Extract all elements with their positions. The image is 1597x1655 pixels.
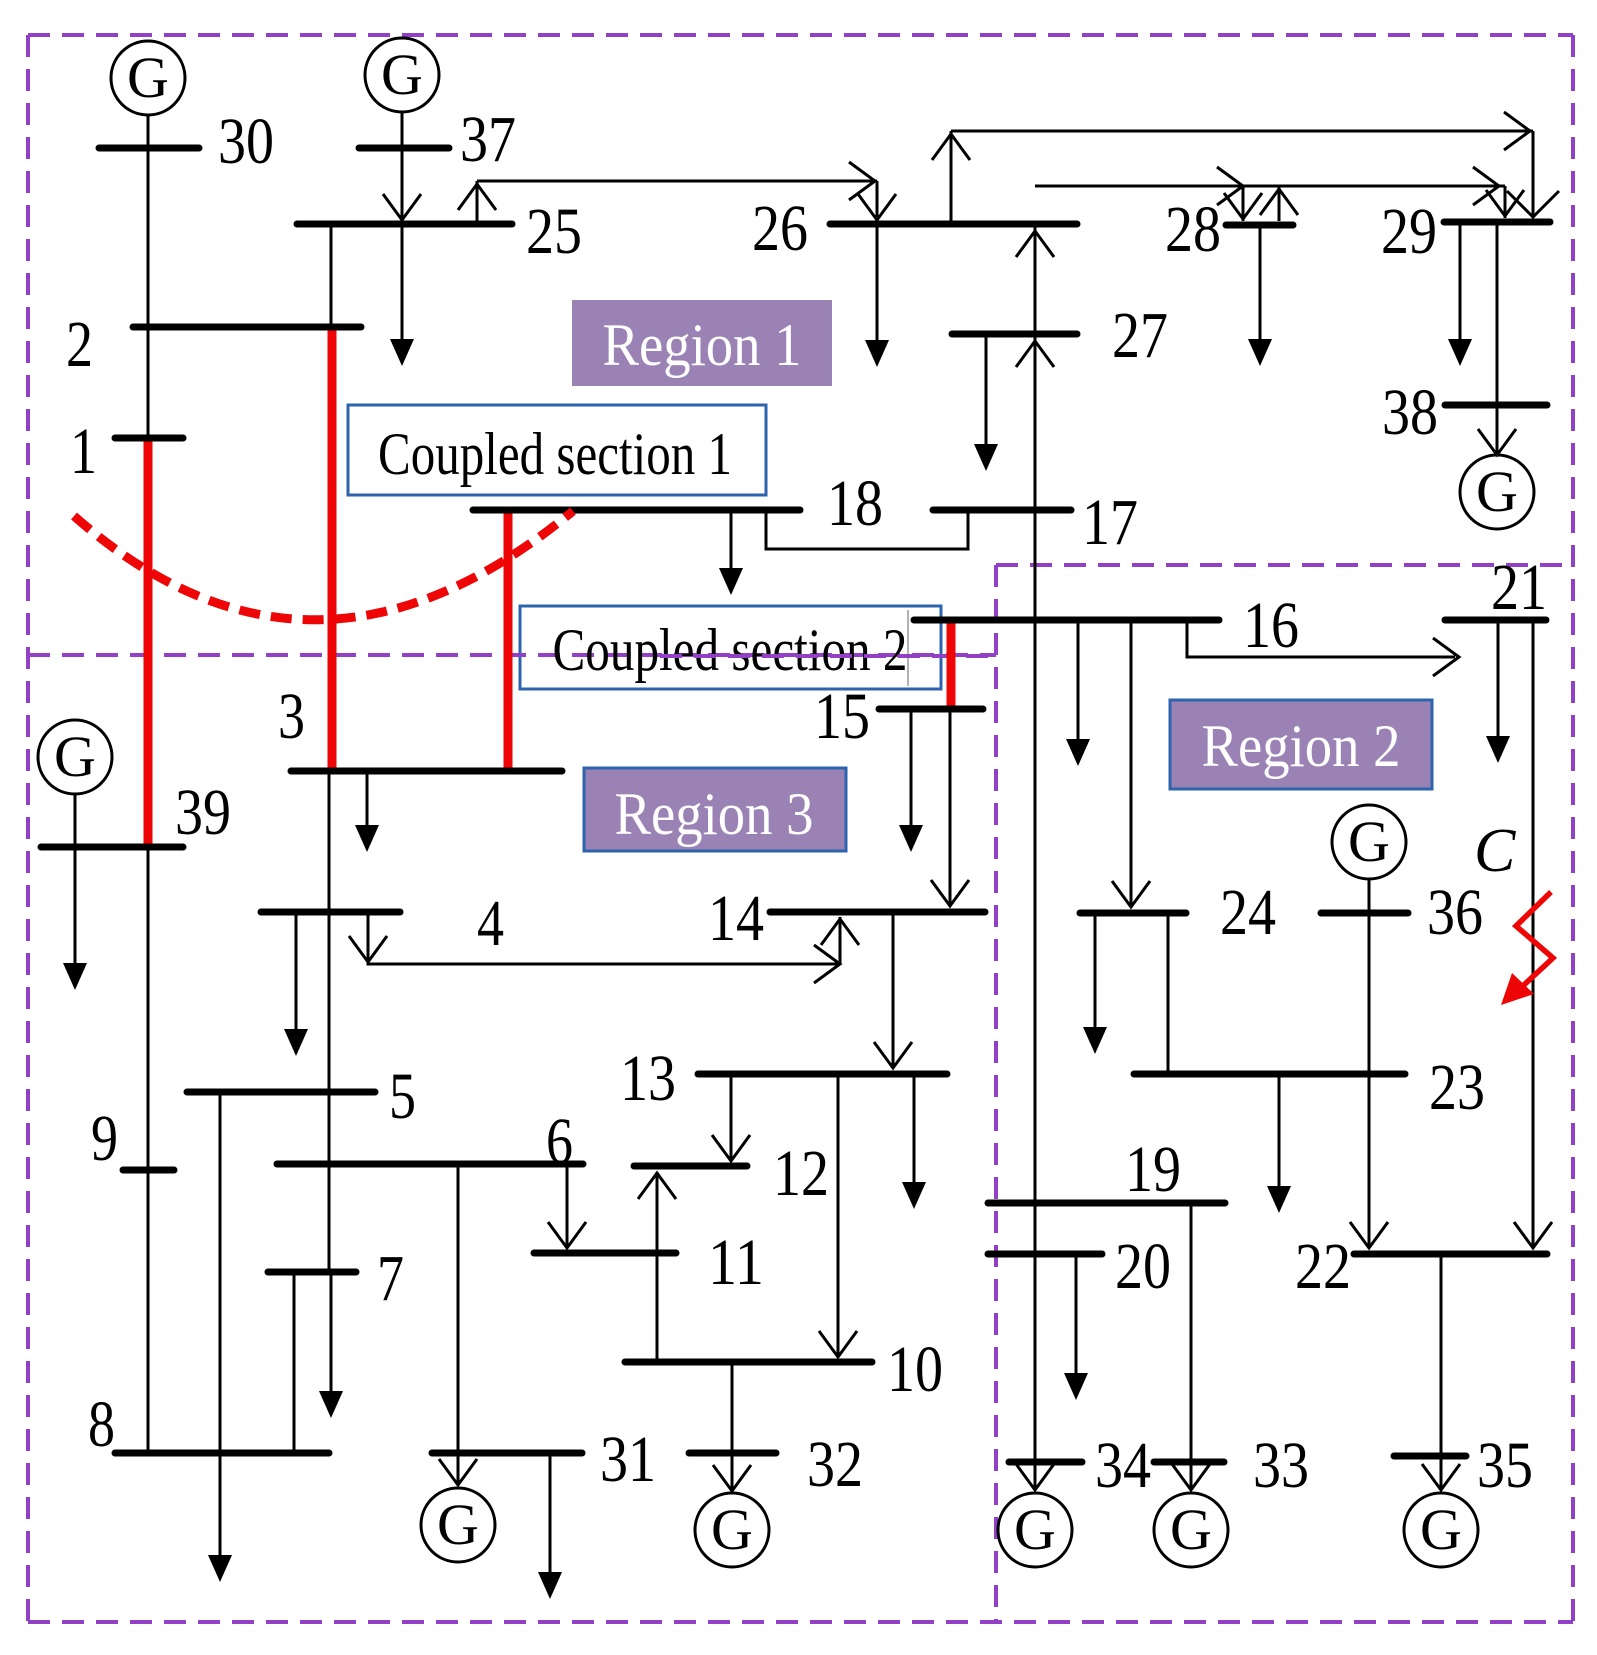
wire 11-12 up arrow	[656, 1172, 659, 1250]
bus 30	[99, 145, 199, 152]
purple dashes over coupled section 2 box	[504, 653, 996, 657]
wire 14-13 arrow	[892, 915, 895, 1066]
svg-text:10: 10	[887, 1333, 943, 1406]
wire 25-26 horizontal	[477, 180, 877, 183]
svg-text:24: 24	[1220, 876, 1276, 949]
generator G at bus 34	[998, 1493, 1072, 1567]
Region 1 label box	[572, 300, 832, 386]
generator stem G-39	[74, 793, 77, 847]
bus 39	[41, 844, 183, 851]
wire 11-10	[656, 1256, 659, 1362]
load arrow bus 28	[1259, 228, 1262, 360]
svg-text:13: 13	[620, 1042, 676, 1115]
wire 13-10	[837, 1077, 840, 1355]
svg-text:G: G	[711, 1497, 753, 1562]
bus 26	[830, 221, 1077, 228]
arrowhead into bus 24	[1112, 881, 1150, 907]
load arrow bus 15	[910, 712, 913, 846]
arrowhead into generator G38	[1478, 429, 1516, 455]
generator stem G-37	[401, 111, 404, 148]
bus 32	[689, 1450, 776, 1457]
svg-text:7: 7	[377, 1242, 404, 1315]
wire 28-29 drop to bus 29	[1504, 186, 1507, 218]
wire 13-12 arrow	[730, 1077, 733, 1159]
text caret artifact	[907, 610, 909, 686]
arrowhead up at 25-26 line	[458, 184, 496, 210]
wire 26-29 horizontal	[951, 130, 1533, 133]
bus 28	[1226, 222, 1293, 229]
arrowhead into bus 13 from 14	[874, 1042, 912, 1068]
wire 37-25 with arrow	[401, 148, 404, 218]
wire 16-21 connector	[1187, 623, 1455, 657]
svg-text:G: G	[1348, 809, 1390, 874]
bus 23	[1134, 1071, 1405, 1078]
svg-text:20: 20	[1115, 1230, 1171, 1303]
svg-text:32: 32	[807, 1428, 863, 1501]
Coupled section 2 label box	[520, 606, 941, 689]
arrowhead into bus 29 from 26	[1507, 191, 1559, 217]
Region 3 label box	[584, 768, 846, 851]
svg-text:G: G	[1420, 1497, 1462, 1562]
arrowhead right at 4-14 end	[814, 945, 840, 983]
generator G at bus 30	[111, 41, 185, 115]
arrowhead into bus 22 from 23	[1350, 1222, 1388, 1248]
wire 28-29 riser	[1278, 186, 1281, 221]
load arrow bus 31	[549, 1456, 552, 1593]
load arrow bus 23	[1278, 1077, 1281, 1207]
svg-text:1: 1	[70, 415, 97, 488]
load arrow bus 3	[366, 774, 369, 846]
arrowhead right at 26-28 bend	[1217, 167, 1243, 205]
svg-text:6: 6	[546, 1105, 573, 1178]
load arrow bus 26	[876, 227, 879, 361]
bus 38	[1445, 402, 1547, 409]
svg-text:Coupled section 1: Coupled section 1	[378, 421, 732, 487]
bus 24	[1080, 910, 1186, 917]
wire 25-2	[330, 227, 333, 327]
bus 33	[1154, 1459, 1224, 1466]
wire 18-17 connector	[766, 513, 968, 549]
red dashed coupling curve	[74, 511, 573, 620]
svg-text:Region 1: Region 1	[603, 312, 802, 378]
arrowhead right at 28-29 corner	[1473, 167, 1499, 205]
svg-text:Region 2: Region 2	[1202, 713, 1401, 779]
svg-text:26: 26	[752, 192, 808, 265]
wire 21-22 line C	[1532, 623, 1535, 1247]
load arrow bus 7	[330, 1275, 333, 1412]
load arrow bus 13	[913, 1077, 916, 1203]
svg-text:25: 25	[526, 195, 582, 268]
bus 16	[914, 617, 1219, 624]
arrowhead into bus 28	[1224, 193, 1262, 219]
svg-text:5: 5	[389, 1060, 416, 1133]
arrowhead into bus 26	[858, 194, 896, 220]
red line 16-15	[947, 623, 956, 706]
bus 14	[770, 909, 985, 916]
svg-text:G: G	[127, 45, 169, 110]
region divider horizontal region1/region2	[996, 563, 1573, 567]
arrowhead into bus 12 from 13	[712, 1135, 750, 1161]
arrowhead into bus 11 from 6	[548, 1222, 586, 1248]
generator G at bus 33	[1154, 1493, 1228, 1567]
bus 3	[291, 768, 562, 775]
svg-text:2: 2	[66, 308, 93, 381]
load arrow bus 16	[1077, 623, 1080, 760]
arrowhead into bus 14 from 15	[931, 880, 969, 906]
bus 22	[1354, 1251, 1547, 1258]
generator G at bus 32	[695, 1493, 769, 1567]
svg-text:G: G	[437, 1492, 479, 1557]
wire 6-11 arrow	[566, 1167, 569, 1246]
wire 15-14	[949, 712, 952, 905]
wire 25-26 drop to bus 26	[876, 181, 879, 217]
load arrow bus 39	[74, 850, 77, 984]
svg-text:27: 27	[1112, 299, 1168, 372]
wire 19-33-G33	[1190, 1206, 1193, 1488]
arrowhead up into bus 27	[1016, 341, 1054, 367]
wire 2-1	[147, 327, 150, 438]
bus 36	[1321, 910, 1408, 917]
wire 22-35-G35	[1440, 1257, 1443, 1488]
load arrow bus 29	[1459, 225, 1462, 360]
svg-text:36: 36	[1427, 876, 1483, 949]
svg-text:G: G	[381, 42, 423, 107]
wire 26-27-17-16-19 long vertical	[1034, 224, 1037, 1488]
bus 29	[1444, 219, 1550, 226]
arrowhead up at 26-29 line	[932, 134, 970, 160]
arrowhead into bus 12 from 11	[638, 1173, 676, 1199]
wire 3-4-5-6-7 vertical	[328, 774, 331, 1272]
svg-text:15: 15	[814, 680, 870, 753]
load arrow bus 18	[730, 513, 733, 589]
svg-text:21: 21	[1491, 551, 1547, 624]
region boundary outer left	[26, 35, 30, 1622]
svg-text:8: 8	[88, 1388, 115, 1461]
wire 26-29 riser	[950, 131, 953, 224]
svg-text:14: 14	[708, 882, 764, 955]
arrowhead up at 28-29 line	[1260, 189, 1298, 215]
wire 26-29 drop to bus 29	[1532, 131, 1535, 218]
wire 4-14 connector	[368, 915, 838, 964]
bus 8	[115, 1450, 329, 1457]
svg-text:9: 9	[91, 1102, 118, 1175]
bus 10	[625, 1359, 872, 1366]
svg-text:Coupled section 2: Coupled section 2	[553, 617, 908, 683]
bus 21	[1445, 617, 1546, 624]
arrowhead into bus 10 from 13	[819, 1331, 857, 1357]
svg-text:G: G	[1170, 1497, 1212, 1562]
arrowhead down at 4-14 bend	[349, 936, 387, 962]
generator G at bus 39	[38, 720, 112, 794]
region boundary outer right	[1571, 35, 1575, 1622]
red line 1-39	[144, 441, 153, 844]
svg-text:29: 29	[1381, 195, 1437, 268]
region divider vertical region3/region2	[994, 565, 998, 1622]
bus 19	[988, 1200, 1225, 1207]
svg-text:G: G	[1014, 1497, 1056, 1562]
bus 2	[133, 324, 361, 331]
svg-text:22: 22	[1295, 1230, 1351, 1303]
svg-text:G: G	[1476, 459, 1518, 524]
svg-text:19: 19	[1125, 1133, 1181, 1206]
arrowhead into generator G32	[713, 1465, 751, 1491]
svg-text:Region 3: Region 3	[615, 781, 814, 847]
wire 29-38-G38	[1496, 225, 1499, 453]
svg-text:12: 12	[773, 1137, 829, 1210]
region boundary outer bottom	[28, 1620, 1573, 1624]
bus 35	[1394, 1453, 1466, 1460]
bus 15	[879, 706, 983, 713]
wire 30-2	[147, 148, 150, 327]
wire 26-28 drop to bus 28	[1242, 186, 1245, 221]
svg-text:18: 18	[827, 467, 883, 540]
wire 39-9-8	[147, 850, 150, 1453]
svg-text:28: 28	[1165, 193, 1221, 266]
Coupled section 1 label box	[348, 405, 766, 495]
load arrow bus 5 through bus 8	[219, 1095, 222, 1576]
bus 18	[473, 507, 800, 514]
purple dashes over coupled section 2 box	[660, 654, 996, 658]
svg-text:31: 31	[600, 1423, 656, 1496]
wire 4-14 riser to bus 14	[839, 917, 842, 964]
arrowhead into bus 25	[383, 194, 421, 220]
arrowhead right at 25-26 corner	[849, 162, 875, 200]
bus 13	[698, 1071, 947, 1078]
red line 2-3	[328, 330, 337, 768]
wire 25-26 riser	[476, 181, 479, 221]
arrowhead into bus 29 from 28	[1486, 190, 1524, 216]
bus 34	[1009, 1459, 1082, 1466]
wire 10-32-G32	[731, 1365, 734, 1489]
svg-text:34: 34	[1095, 1429, 1151, 1502]
region divider horizontal region1/region3	[28, 653, 996, 657]
region boundary outer top	[28, 33, 1573, 37]
bus 9	[123, 1167, 174, 1174]
arrowhead up into bus 26	[1016, 231, 1054, 257]
generator G at bus 35	[1404, 1493, 1478, 1567]
load arrow bus 25	[401, 227, 404, 360]
bus 25	[297, 221, 512, 228]
Region 2 label box	[1170, 700, 1432, 789]
bus 4	[261, 909, 400, 916]
svg-text:39: 39	[175, 776, 231, 849]
bus 7	[268, 1269, 356, 1276]
load arrow bus 27	[985, 337, 988, 465]
bus 1	[115, 435, 183, 442]
arrowhead into bus 22 from 21	[1514, 1222, 1552, 1248]
svg-text:33: 33	[1253, 1429, 1309, 1502]
svg-text:C: C	[1474, 817, 1516, 885]
svg-text:38: 38	[1382, 376, 1438, 449]
svg-text:11: 11	[708, 1226, 764, 1299]
bus 5	[187, 1089, 375, 1096]
svg-text:4: 4	[477, 887, 504, 960]
svg-text:30: 30	[218, 105, 274, 178]
arrowhead down into generator G34	[1016, 1464, 1054, 1490]
bus 17	[933, 507, 1071, 514]
svg-text:17: 17	[1082, 486, 1138, 559]
bus 37	[359, 145, 449, 152]
generator G at bus 37	[365, 38, 439, 112]
generator stem G-36	[1368, 878, 1371, 913]
red line 18-3	[504, 513, 513, 768]
arrowhead into generator G31	[439, 1459, 477, 1485]
bus 12	[634, 1163, 747, 1170]
arrowhead up into bus 14	[821, 919, 859, 945]
bus 31	[432, 1450, 582, 1457]
load arrow bus 21	[1497, 623, 1500, 757]
svg-text:16: 16	[1243, 589, 1299, 662]
load arrow bus 4	[295, 915, 298, 1050]
load arrow bus 20	[1075, 1257, 1078, 1394]
bus 27	[952, 331, 1077, 338]
arrowhead into generator G35	[1422, 1464, 1460, 1490]
svg-text:23: 23	[1429, 1051, 1485, 1124]
svg-text:3: 3	[278, 680, 305, 753]
wire 16-24	[1130, 623, 1133, 906]
svg-text:G: G	[54, 724, 96, 789]
svg-text:35: 35	[1477, 1429, 1533, 1502]
fault lightning bolt C	[1512, 892, 1553, 996]
wire 6-31-G31	[457, 1167, 460, 1483]
generator G at bus 36	[1332, 805, 1406, 879]
wire 24-23	[1167, 916, 1170, 1074]
arrowhead right into bus 21 area	[1433, 638, 1459, 676]
arrowhead into generator G33	[1172, 1464, 1210, 1490]
bus 11	[534, 1250, 676, 1257]
load arrow bus 24	[1094, 916, 1097, 1048]
bus 6	[277, 1161, 583, 1168]
arrowhead right at 26-29 corner	[1504, 112, 1530, 150]
svg-text:37: 37	[460, 103, 516, 176]
generator stem G-30	[147, 114, 150, 148]
generator G at bus 31	[421, 1488, 495, 1562]
wire 7-8	[293, 1275, 296, 1453]
wire 26-28 horizontal	[1035, 185, 1505, 188]
bus 20	[988, 1251, 1102, 1258]
generator G at bus 38	[1460, 455, 1534, 529]
wire 36-23-22	[1368, 916, 1371, 1247]
